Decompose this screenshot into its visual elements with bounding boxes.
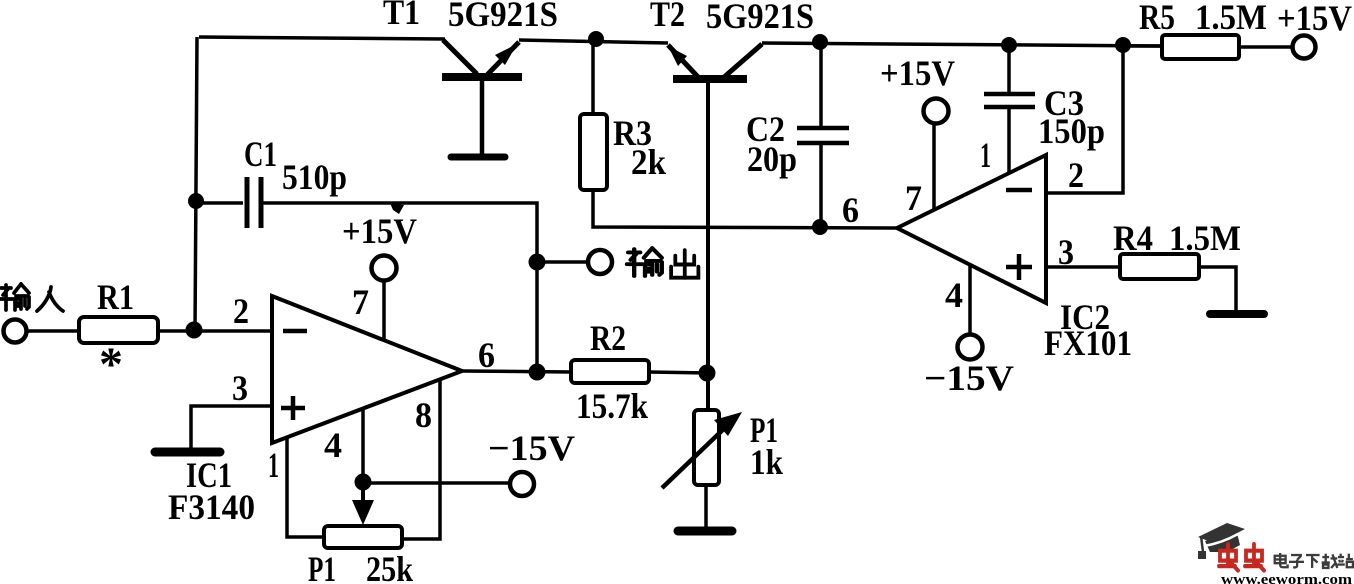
svg-text:1: 1: [980, 135, 991, 175]
svg-text:R4: R4: [1113, 218, 1153, 258]
svg-text:25k: 25k: [366, 549, 413, 584]
transistor T1 base end bar: [451, 154, 505, 161]
terminal +15V IC1 circle: [372, 256, 397, 281]
op-amp IC1 triangle: [272, 296, 462, 443]
capacitor C2 bottom lead: [819, 145, 823, 227]
wire input to R1: [27, 329, 80, 333]
svg-text:1: 1: [268, 445, 279, 485]
svg-text:R5: R5: [1139, 0, 1175, 37]
node junction pin2 wire on rail: [1115, 37, 1131, 53]
svg-text:2: 2: [1068, 155, 1084, 195]
ground bar at R4: [1210, 310, 1264, 318]
svg-text:15.7k: 15.7k: [576, 386, 648, 426]
op-amp IC2 plus sign: [1006, 254, 1032, 280]
resistor R3 bottom lead: [593, 190, 897, 228]
label shuchu output hand-drawn: [627, 248, 698, 278]
wire R2 to T2 base line: [649, 372, 708, 373]
potentiometer P1 1k body: [694, 410, 719, 485]
ground bar at IC1 pin 3: [155, 448, 220, 457]
resistor R5 lead left: [1123, 44, 1164, 48]
svg-text:+15V: +15V: [1277, 0, 1352, 38]
svg-text:5G921S: 5G921S: [706, 0, 814, 36]
op-amp IC1 plus sign: [281, 396, 305, 420]
wire IC1 pin 3 to ground: [191, 406, 272, 448]
svg-text:T1: T1: [383, 0, 420, 32]
svg-text:+15V: +15V: [342, 211, 417, 251]
svg-text:5G921S: 5G921S: [448, 0, 558, 34]
node junction C2 bottom on IC2 input wire: [812, 219, 828, 235]
label shuru input hand-drawn: [0, 284, 63, 311]
terminal -15V IC2 circle: [958, 335, 983, 360]
transistor T1 base lead: [480, 79, 485, 154]
wire IC2 pin 2 to rail: [1046, 45, 1123, 193]
svg-text:R2: R2: [590, 318, 626, 358]
op-amp IC1 minus sign: [283, 329, 307, 334]
wire R4 to ground: [1199, 267, 1236, 311]
transistor T2 base bar: [673, 75, 747, 83]
wire IC1 output to R2: [462, 371, 572, 372]
svg-text:2k: 2k: [631, 142, 666, 182]
wire IC1 pin 8 to P1 25k right: [400, 380, 440, 539]
svg-text:*: *: [99, 338, 123, 391]
capacitor C2 top lead: [819, 42, 823, 126]
svg-text:20p: 20p: [747, 139, 797, 179]
svg-text:150p: 150p: [1038, 111, 1105, 151]
transistor T2 emitter diagonal with arrow: [668, 45, 698, 77]
node junction C2 on rail: [812, 34, 828, 50]
capacitor C2 plates: [797, 128, 849, 143]
svg-text:T2: T2: [650, 0, 685, 34]
wire R5 to +15V terminal: [1239, 45, 1292, 49]
capacitor C3 top lead: [1007, 44, 1011, 93]
terminal -15V IC1 circle: [510, 472, 534, 496]
wire IC2 pin 3 to R4: [1046, 265, 1122, 269]
transistor T1 collector diagonal: [443, 40, 477, 74]
svg-text:4: 4: [945, 275, 963, 315]
potentiometer P1 25k body: [324, 526, 402, 548]
wire IC1 pin 4 down: [361, 408, 365, 481]
svg-text:6: 6: [842, 190, 859, 230]
resistor R1 body: [79, 317, 158, 343]
resistor R2 body: [571, 360, 649, 383]
svg-text:8: 8: [415, 395, 432, 435]
svg-text:FX101: FX101: [1044, 323, 1132, 363]
svg-text:+15V: +15V: [880, 53, 955, 93]
svg-text:510p: 510p: [282, 157, 347, 197]
watermark chongchong red characters: [1219, 544, 1264, 570]
wire R1 to IC1 pin 2: [158, 329, 272, 333]
svg-text:−15V: −15V: [924, 358, 1014, 398]
svg-text:P1: P1: [308, 549, 336, 584]
svg-text:C1: C1: [244, 134, 277, 174]
capacitor C1 right lead to output node: [263, 203, 537, 372]
transistor T2 collector diagonal: [723, 44, 762, 78]
node junction C1 tap on left vertical: [188, 193, 204, 209]
wire IC2 pin 4 supply: [968, 264, 972, 335]
op-amp IC2 triangle: [897, 155, 1046, 303]
svg-text:1.5M: 1.5M: [1195, 0, 1267, 37]
potentiometer P1 1k diagonal arrow: [662, 412, 742, 488]
svg-text:R1: R1: [97, 277, 134, 317]
node junction R2 right on base line: [699, 365, 716, 382]
terminal +15V IC2 circle: [924, 99, 949, 124]
svg-text:4: 4: [324, 425, 342, 465]
transistor T1 base bar: [442, 73, 522, 81]
svg-text:−15V: −15V: [488, 428, 575, 468]
transistor T1 emitter diagonal with arrow: [487, 42, 519, 75]
resistor R5 body: [1162, 35, 1239, 59]
svg-text:www.eeworm.com: www.eeworm.com: [1221, 572, 1353, 584]
op-amp IC2 minus sign: [1006, 188, 1032, 193]
wire rail from T2 to R5: [762, 43, 1162, 46]
wire pin4 node to -15V terminal: [363, 481, 510, 485]
svg-text:2: 2: [233, 291, 249, 331]
wire to output terminal: [537, 260, 589, 264]
terminal input circle: [4, 320, 27, 343]
svg-text:1.5M: 1.5M: [1169, 218, 1241, 258]
ground bar below P1 1k: [678, 527, 732, 536]
svg-text:7: 7: [352, 282, 369, 322]
wire IC1 pin 7 supply: [382, 280, 386, 340]
svg-text:1k: 1k: [750, 442, 783, 482]
node junction R1 feedback: [186, 322, 203, 339]
svg-text:6: 6: [478, 335, 495, 375]
resistor R3 top lead: [591, 39, 595, 116]
resistor R3 body: [580, 114, 607, 190]
wire top rail left segment: [199, 37, 445, 39]
capacitor C3 plates: [984, 94, 1035, 107]
transistor T2 base lead down to P1: [706, 81, 710, 412]
svg-text:3: 3: [232, 368, 248, 408]
wire rail between T1 and T2: [519, 40, 668, 43]
node junction output column at pin 6: [529, 364, 546, 381]
node junction C3 on rail: [1001, 37, 1017, 53]
wire IC1 pin 1 to P1 25k left: [287, 437, 326, 537]
watermark dianzi xiazai zhan characters: [1275, 553, 1353, 568]
wire IC2 pin 7 supply: [932, 123, 936, 211]
wire left vertical from rail to input node: [195, 37, 197, 331]
capacitor C1 left lead: [196, 201, 243, 205]
capacitor C3 bottom lead to IC2 pin 1: [1007, 109, 1011, 174]
resistor R4 body: [1120, 254, 1199, 279]
svg-text:7: 7: [905, 178, 922, 218]
node junction pin4 wiper -15V: [355, 474, 372, 491]
svg-text:3: 3: [1058, 232, 1074, 272]
potentiometer P1 25k wiper arrow: [352, 482, 374, 525]
wire P1 1k to ground: [704, 485, 708, 528]
node junction on rail between T1 and T2: [588, 31, 604, 47]
svg-text:F3140: F3140: [168, 487, 255, 527]
watermark graduation cap: [1198, 523, 1245, 559]
terminal output circle: [588, 250, 612, 274]
terminal +15V right circle: [1293, 36, 1316, 59]
node junction output tap: [529, 254, 546, 271]
ink blob artifact on C1 wire: [390, 203, 404, 214]
capacitor C1 plates: [247, 177, 261, 228]
